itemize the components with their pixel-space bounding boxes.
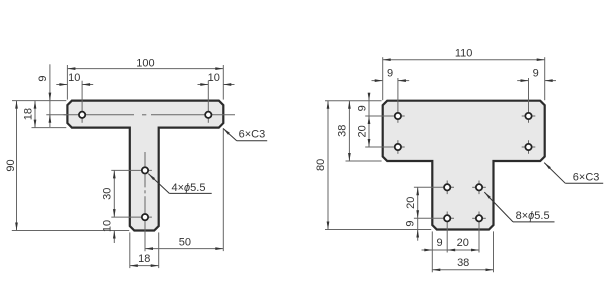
svg-text:10: 10: [208, 72, 220, 84]
svg-text:20: 20: [357, 125, 369, 137]
svg-text:38: 38: [457, 257, 469, 269]
svg-text:9: 9: [437, 237, 443, 249]
svg-text:80: 80: [315, 159, 327, 171]
svg-text:110: 110: [455, 48, 473, 60]
svg-text:18: 18: [23, 108, 35, 120]
svg-text:10: 10: [68, 72, 80, 84]
svg-text:9: 9: [533, 68, 539, 80]
svg-text:38: 38: [337, 125, 349, 137]
svg-text:9: 9: [387, 68, 393, 80]
svg-text:18: 18: [138, 253, 150, 265]
svg-text:8×ϕ5.5: 8×ϕ5.5: [516, 210, 550, 222]
svg-text:9: 9: [357, 105, 369, 111]
svg-text:90: 90: [5, 159, 17, 171]
svg-text:6×C3: 6×C3: [573, 171, 600, 183]
svg-text:20: 20: [457, 237, 469, 249]
svg-text:30: 30: [101, 188, 113, 200]
svg-text:9: 9: [37, 75, 49, 81]
svg-text:50: 50: [179, 236, 191, 248]
svg-text:4×ϕ5.5: 4×ϕ5.5: [172, 182, 206, 194]
svg-text:6×C3: 6×C3: [239, 129, 266, 141]
svg-text:20: 20: [405, 197, 417, 209]
svg-text:100: 100: [136, 57, 154, 69]
svg-text:10: 10: [101, 220, 113, 232]
svg-text:9: 9: [405, 221, 417, 227]
